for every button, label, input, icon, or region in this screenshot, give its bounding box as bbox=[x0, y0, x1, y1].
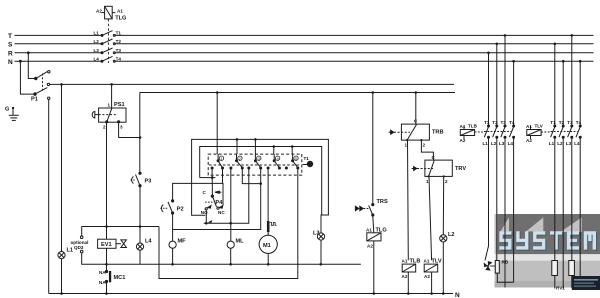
wire riser line A right to line2 bbox=[159, 169, 298, 279]
switch P1 bbox=[34, 71, 50, 100]
contactor TLG coil bbox=[102, 6, 116, 19]
relay TLV contacts T1-T4 bbox=[551, 125, 582, 138]
bus line N bbox=[15, 60, 101, 62]
lamp L3 bbox=[317, 233, 324, 264]
wire corner down to P3 bbox=[139, 93, 141, 174]
logo dark info box bbox=[572, 276, 600, 290]
svg-text:T2: T2 bbox=[116, 39, 122, 44]
svg-text:G: G bbox=[5, 107, 9, 113]
svg-text:L2: L2 bbox=[448, 232, 455, 238]
svg-text:A1: A1 bbox=[526, 124, 532, 129]
wire PS1-2 to line A bbox=[106, 123, 108, 227]
svg-text:NA: NA bbox=[99, 280, 106, 285]
svg-text:L4: L4 bbox=[94, 56, 100, 61]
wire pole1-right to P2/NC bbox=[222, 169, 224, 184]
wire P2 top hook bbox=[173, 183, 223, 205]
svg-text:MF: MF bbox=[178, 239, 187, 245]
timer mechanical link dashed bbox=[209, 164, 301, 166]
svg-text:L4: L4 bbox=[145, 239, 152, 245]
node on N line bbox=[19, 60, 22, 63]
wire TRV-2 to lamp L2 bbox=[442, 176, 444, 235]
ground G bbox=[9, 107, 19, 121]
svg-text:L1: L1 bbox=[94, 31, 100, 36]
svg-text:NA: NA bbox=[99, 270, 106, 275]
svg-text:RB: RB bbox=[502, 260, 509, 265]
svg-text:A1: A1 bbox=[117, 9, 123, 14]
contactor TLG contact L2/T2 bbox=[101, 39, 115, 45]
wire pole2-right stub bbox=[242, 169, 260, 184]
bus line R bbox=[15, 52, 101, 54]
logo triangle 2 bbox=[526, 217, 543, 231]
svg-text:T3: T3 bbox=[501, 120, 507, 125]
svg-text:EV1: EV1 bbox=[101, 242, 112, 248]
node line A horizontal bbox=[82, 226, 159, 228]
svg-text:A2: A2 bbox=[402, 274, 408, 279]
wire TRB-1 to relay coil TLB bbox=[407, 140, 410, 260]
svg-text:2: 2 bbox=[103, 125, 106, 130]
svg-text:L3: L3 bbox=[94, 48, 100, 53]
door contact MC1 bbox=[105, 264, 111, 293]
svg-text:TRB: TRB bbox=[432, 130, 444, 136]
svg-text:T4: T4 bbox=[576, 120, 582, 125]
contactor TLG contact L3/T3 bbox=[101, 48, 115, 54]
svg-text:MC1: MC1 bbox=[114, 275, 126, 281]
svg-text:P2: P2 bbox=[177, 207, 184, 213]
svg-text:A1: A1 bbox=[460, 124, 466, 129]
bottom neutral rail bbox=[49, 293, 453, 295]
svg-text:TRS: TRS bbox=[377, 199, 388, 205]
wire line1 common bbox=[82, 253, 361, 264]
svg-text:A2: A2 bbox=[526, 138, 532, 143]
resistor RB bbox=[495, 261, 499, 274]
wire MF tap to pole3 right bbox=[173, 184, 261, 230]
relay TLV coil (power block) bbox=[527, 126, 541, 139]
svg-text:TLV: TLV bbox=[535, 124, 544, 129]
logo watermark block bbox=[495, 214, 600, 288]
svg-text:TRV: TRV bbox=[455, 166, 466, 172]
wire TLV spare drops bbox=[562, 138, 564, 288]
svg-text:T4: T4 bbox=[509, 120, 515, 125]
relay coil TLV (control) bbox=[424, 264, 438, 272]
solenoid valve EV1 bbox=[98, 227, 127, 265]
wire pole1 output line bbox=[200, 177, 216, 179]
svg-text:L3: L3 bbox=[313, 231, 320, 237]
svg-text:L1: L1 bbox=[483, 141, 489, 146]
wire PS1-3 jog bbox=[119, 123, 141, 138]
timer pole 2 bbox=[230, 154, 243, 169]
wire node A (P1 output line y84) bbox=[50, 83, 454, 85]
wire RB bottom to T4 drop bbox=[497, 273, 513, 282]
wire N to P1 lower pole bbox=[20, 61, 35, 94]
svg-text:A2: A2 bbox=[460, 138, 466, 143]
svg-text:TLB: TLB bbox=[410, 259, 421, 265]
wire TRB-2 to TRV C bbox=[421, 140, 433, 160]
relay coil TLG (control) bbox=[373, 216, 374, 233]
wire pole4-left to motor protector bbox=[267, 169, 269, 222]
wire P1 lower to bottom neutral rail bbox=[48, 100, 50, 294]
svg-text:T3: T3 bbox=[116, 48, 122, 53]
svg-text:P4: P4 bbox=[215, 200, 223, 206]
bus line T bbox=[15, 34, 101, 36]
thermostat TRV bbox=[412, 160, 453, 176]
thermostat TRB bbox=[415, 93, 417, 125]
lamp L2 bbox=[440, 235, 447, 294]
thermostat contact TRS bbox=[372, 93, 374, 205]
node taps for TLV contact bank bbox=[554, 43, 557, 46]
svg-text:1: 1 bbox=[108, 103, 111, 108]
svg-text:QD3: QD3 bbox=[74, 245, 84, 250]
relay TLB contacts T1-T4 bbox=[484, 125, 514, 138]
wire inner feed line y146.5 bbox=[200, 147, 322, 216]
svg-text:A2: A2 bbox=[96, 9, 102, 14]
svg-text:L3: L3 bbox=[566, 141, 572, 146]
svg-text:TLG: TLG bbox=[376, 228, 387, 234]
wire P2 to fan motor MF bbox=[172, 214, 174, 241]
timer pole 5 bbox=[285, 154, 298, 169]
wires down to TLB contacts bbox=[488, 53, 490, 125]
wire R to P1 upper pole bbox=[28, 53, 36, 79]
svg-text:ML: ML bbox=[236, 239, 245, 245]
timer pole 4 bbox=[267, 154, 280, 169]
svg-text:A1: A1 bbox=[424, 259, 430, 264]
logo text SYSTEM bbox=[500, 232, 597, 250]
svg-text:N: N bbox=[455, 292, 460, 298]
resistor RV1 b bbox=[571, 138, 573, 260]
bus line S bbox=[15, 43, 101, 45]
svg-text:1: 1 bbox=[426, 179, 429, 184]
thermal contact P3 bbox=[131, 172, 142, 187]
timer T1 dashed box bbox=[208, 154, 302, 175]
bus labels bbox=[8, 33, 13, 66]
svg-text:T2: T2 bbox=[492, 120, 498, 125]
svg-text:A1: A1 bbox=[402, 259, 408, 264]
wires down to TLV contacts bbox=[554, 44, 556, 125]
wires TLB bank down into logo area bbox=[485, 138, 489, 260]
svg-text:L1: L1 bbox=[549, 141, 555, 146]
contactor TLG contact L1/T1 bbox=[101, 31, 115, 37]
wire NO line to ML and pole3-left bbox=[204, 175, 249, 223]
svg-text:T2: T2 bbox=[559, 120, 565, 125]
fan motor MF bbox=[169, 241, 176, 248]
lamp L4 bbox=[136, 227, 143, 265]
node taps for TLB contact bank bbox=[487, 52, 490, 55]
svg-text:TLB: TLB bbox=[468, 124, 478, 129]
svg-text:T1: T1 bbox=[484, 120, 490, 125]
svg-text:L2: L2 bbox=[491, 141, 497, 146]
svg-text:P1: P1 bbox=[31, 97, 38, 103]
svg-text:TLG: TLG bbox=[115, 16, 126, 22]
svg-text:PS1: PS1 bbox=[114, 102, 125, 108]
svg-text:S: S bbox=[8, 41, 13, 48]
node on R line bbox=[27, 51, 30, 54]
svg-text:P3: P3 bbox=[145, 179, 152, 185]
timer pole 3 bbox=[248, 154, 262, 169]
svg-text:L1: L1 bbox=[67, 248, 74, 254]
mechanical link dashed bbox=[107, 19, 109, 63]
switch P4 bbox=[205, 178, 223, 210]
wire pole5-right riser handled above; lamp L3 drop bbox=[320, 232, 322, 234]
timer pole 1 bbox=[211, 154, 223, 169]
svg-text:M1: M1 bbox=[263, 243, 271, 249]
svg-text:3: 3 bbox=[120, 125, 123, 130]
svg-text:2: 2 bbox=[445, 179, 448, 184]
svg-text:T3: T3 bbox=[567, 120, 573, 125]
logo triangle 1 bbox=[501, 217, 510, 231]
logo triangle 3 bbox=[560, 217, 581, 232]
motor protector PT bbox=[267, 221, 270, 232]
lamp motor ML bbox=[230, 169, 232, 242]
svg-text:TLV: TLV bbox=[432, 259, 442, 265]
contactor TLG contact L4/T4 bbox=[101, 56, 115, 62]
svg-text:T1: T1 bbox=[550, 120, 556, 125]
svg-text:NO: NO bbox=[201, 210, 208, 215]
pressure switch PS1 bbox=[92, 108, 126, 123]
svg-text:N: N bbox=[8, 59, 13, 66]
timer knob dot bbox=[307, 161, 313, 167]
relay TLB coil (power block) bbox=[460, 126, 474, 139]
wire TRV-1 to relay coil TLV bbox=[429, 176, 432, 260]
svg-text:L2: L2 bbox=[557, 141, 563, 146]
svg-text:T1: T1 bbox=[304, 156, 310, 161]
svg-text:L4: L4 bbox=[574, 141, 580, 146]
wire P3 to line A bbox=[139, 187, 141, 227]
wire pole1 feed from y92.5 bbox=[216, 93, 218, 155]
svg-text:NC: NC bbox=[218, 210, 225, 215]
fan symbol RB fan bbox=[484, 261, 493, 271]
wire supply rect around timer bbox=[192, 139, 329, 233]
wire feed line y92.5 bbox=[140, 92, 455, 94]
svg-text:A2: A2 bbox=[367, 244, 373, 249]
resistor RV1 a bbox=[554, 138, 556, 260]
wire P4 NO output bbox=[205, 210, 207, 223]
svg-text:2: 2 bbox=[423, 143, 426, 148]
terminal QD3 optional bbox=[81, 227, 83, 236]
svg-text:L3: L3 bbox=[499, 141, 505, 146]
svg-text:A1: A1 bbox=[366, 228, 372, 233]
relay coil TLB (control) bbox=[402, 264, 416, 272]
svg-text:L2: L2 bbox=[94, 39, 100, 44]
svg-text:A2: A2 bbox=[424, 274, 430, 279]
wire lamp L1 drop bbox=[61, 84, 63, 251]
svg-text:T1: T1 bbox=[116, 31, 122, 36]
lamp L1 bbox=[58, 252, 65, 294]
motor M1 bbox=[267, 232, 269, 235]
svg-text:T: T bbox=[8, 33, 12, 40]
svg-text:RV1: RV1 bbox=[556, 286, 565, 291]
svg-text:R: R bbox=[8, 50, 13, 57]
svg-text:T4: T4 bbox=[116, 56, 122, 61]
thermal contact P2 bbox=[160, 200, 173, 214]
wire PS1 feed drop bbox=[111, 84, 113, 108]
svg-text:L4: L4 bbox=[508, 141, 514, 146]
